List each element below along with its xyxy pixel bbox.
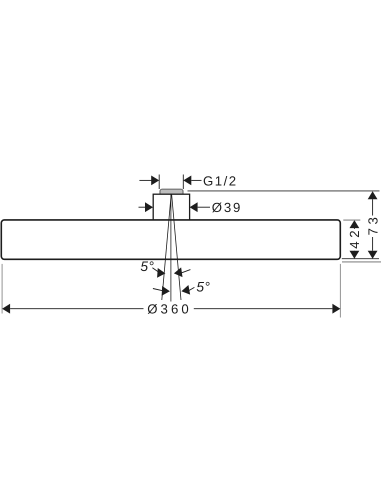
leader for right 5 degrees [189,287,194,290]
spray axis center line [170,194,172,302]
white box behind 42 [347,229,363,251]
dimension G1/2 left tail [139,179,151,181]
dimension 73 bottom arrow [368,251,378,259]
svg-text:G1/2: G1/2 [203,174,238,189]
dimension Ø39 right arrow [190,202,198,212]
extension tick right of G1/2 [182,175,184,190]
tail for lower left angle arrow [153,289,162,291]
dimension Ø360 line right segment [194,308,333,310]
gray bottom extension line right [342,261,381,263]
dimension G1/2 right tail [191,179,201,181]
connector cap (G1/2 thread) [160,189,183,196]
dimension Ø39 right tail [198,206,210,208]
extension tick above 42 [343,219,360,221]
leader for left 5 degrees [152,268,159,273]
dimension Ø360 right arrow [332,304,340,314]
dimension 42 bottom arrow [350,251,360,259]
svg-text:Ø360: Ø360 [147,302,192,317]
dimension Ø39 left tail [139,206,147,208]
extension line top of 73 (from cap top to right) [188,190,380,192]
extension tick left of G1/2 [158,175,160,190]
dimension 73 top arrow [368,191,378,199]
extension line Ø360 right [339,264,341,318]
connector block (Ø39) [153,194,189,223]
tail for upper right angle arrow [181,270,190,273]
dimension 42 top arrow [350,220,360,228]
svg-text:42: 42 [347,227,362,249]
angle arrow lower left [162,286,171,296]
dimension 42 line [353,228,355,251]
svg-text:5°: 5° [140,259,154,274]
extension line Ø360 left [1,264,3,314]
spray line left 5 degrees [162,194,171,300]
svg-text:73: 73 [366,214,381,236]
svg-text:Ø39: Ø39 [212,200,242,215]
dimension Ø360 left arrow [2,304,10,314]
dimension G1/2 left arrow [151,176,159,186]
dimension 73 line [372,199,374,251]
angle arrow upper right [173,267,182,278]
spray line right 5 degrees [172,194,181,300]
dimension Ø39 left arrow [145,202,153,212]
shower head body [1,220,340,259]
white box behind 73 [365,216,381,238]
dimension Ø360 line left segment [10,308,143,310]
angle arrow lower right [181,285,191,296]
dimension G1/2 right arrow [183,176,191,186]
svg-text:5°: 5° [196,279,210,294]
angle arrow upper left [157,268,166,278]
bottom extension tick for 42 and 73 [342,258,379,260]
